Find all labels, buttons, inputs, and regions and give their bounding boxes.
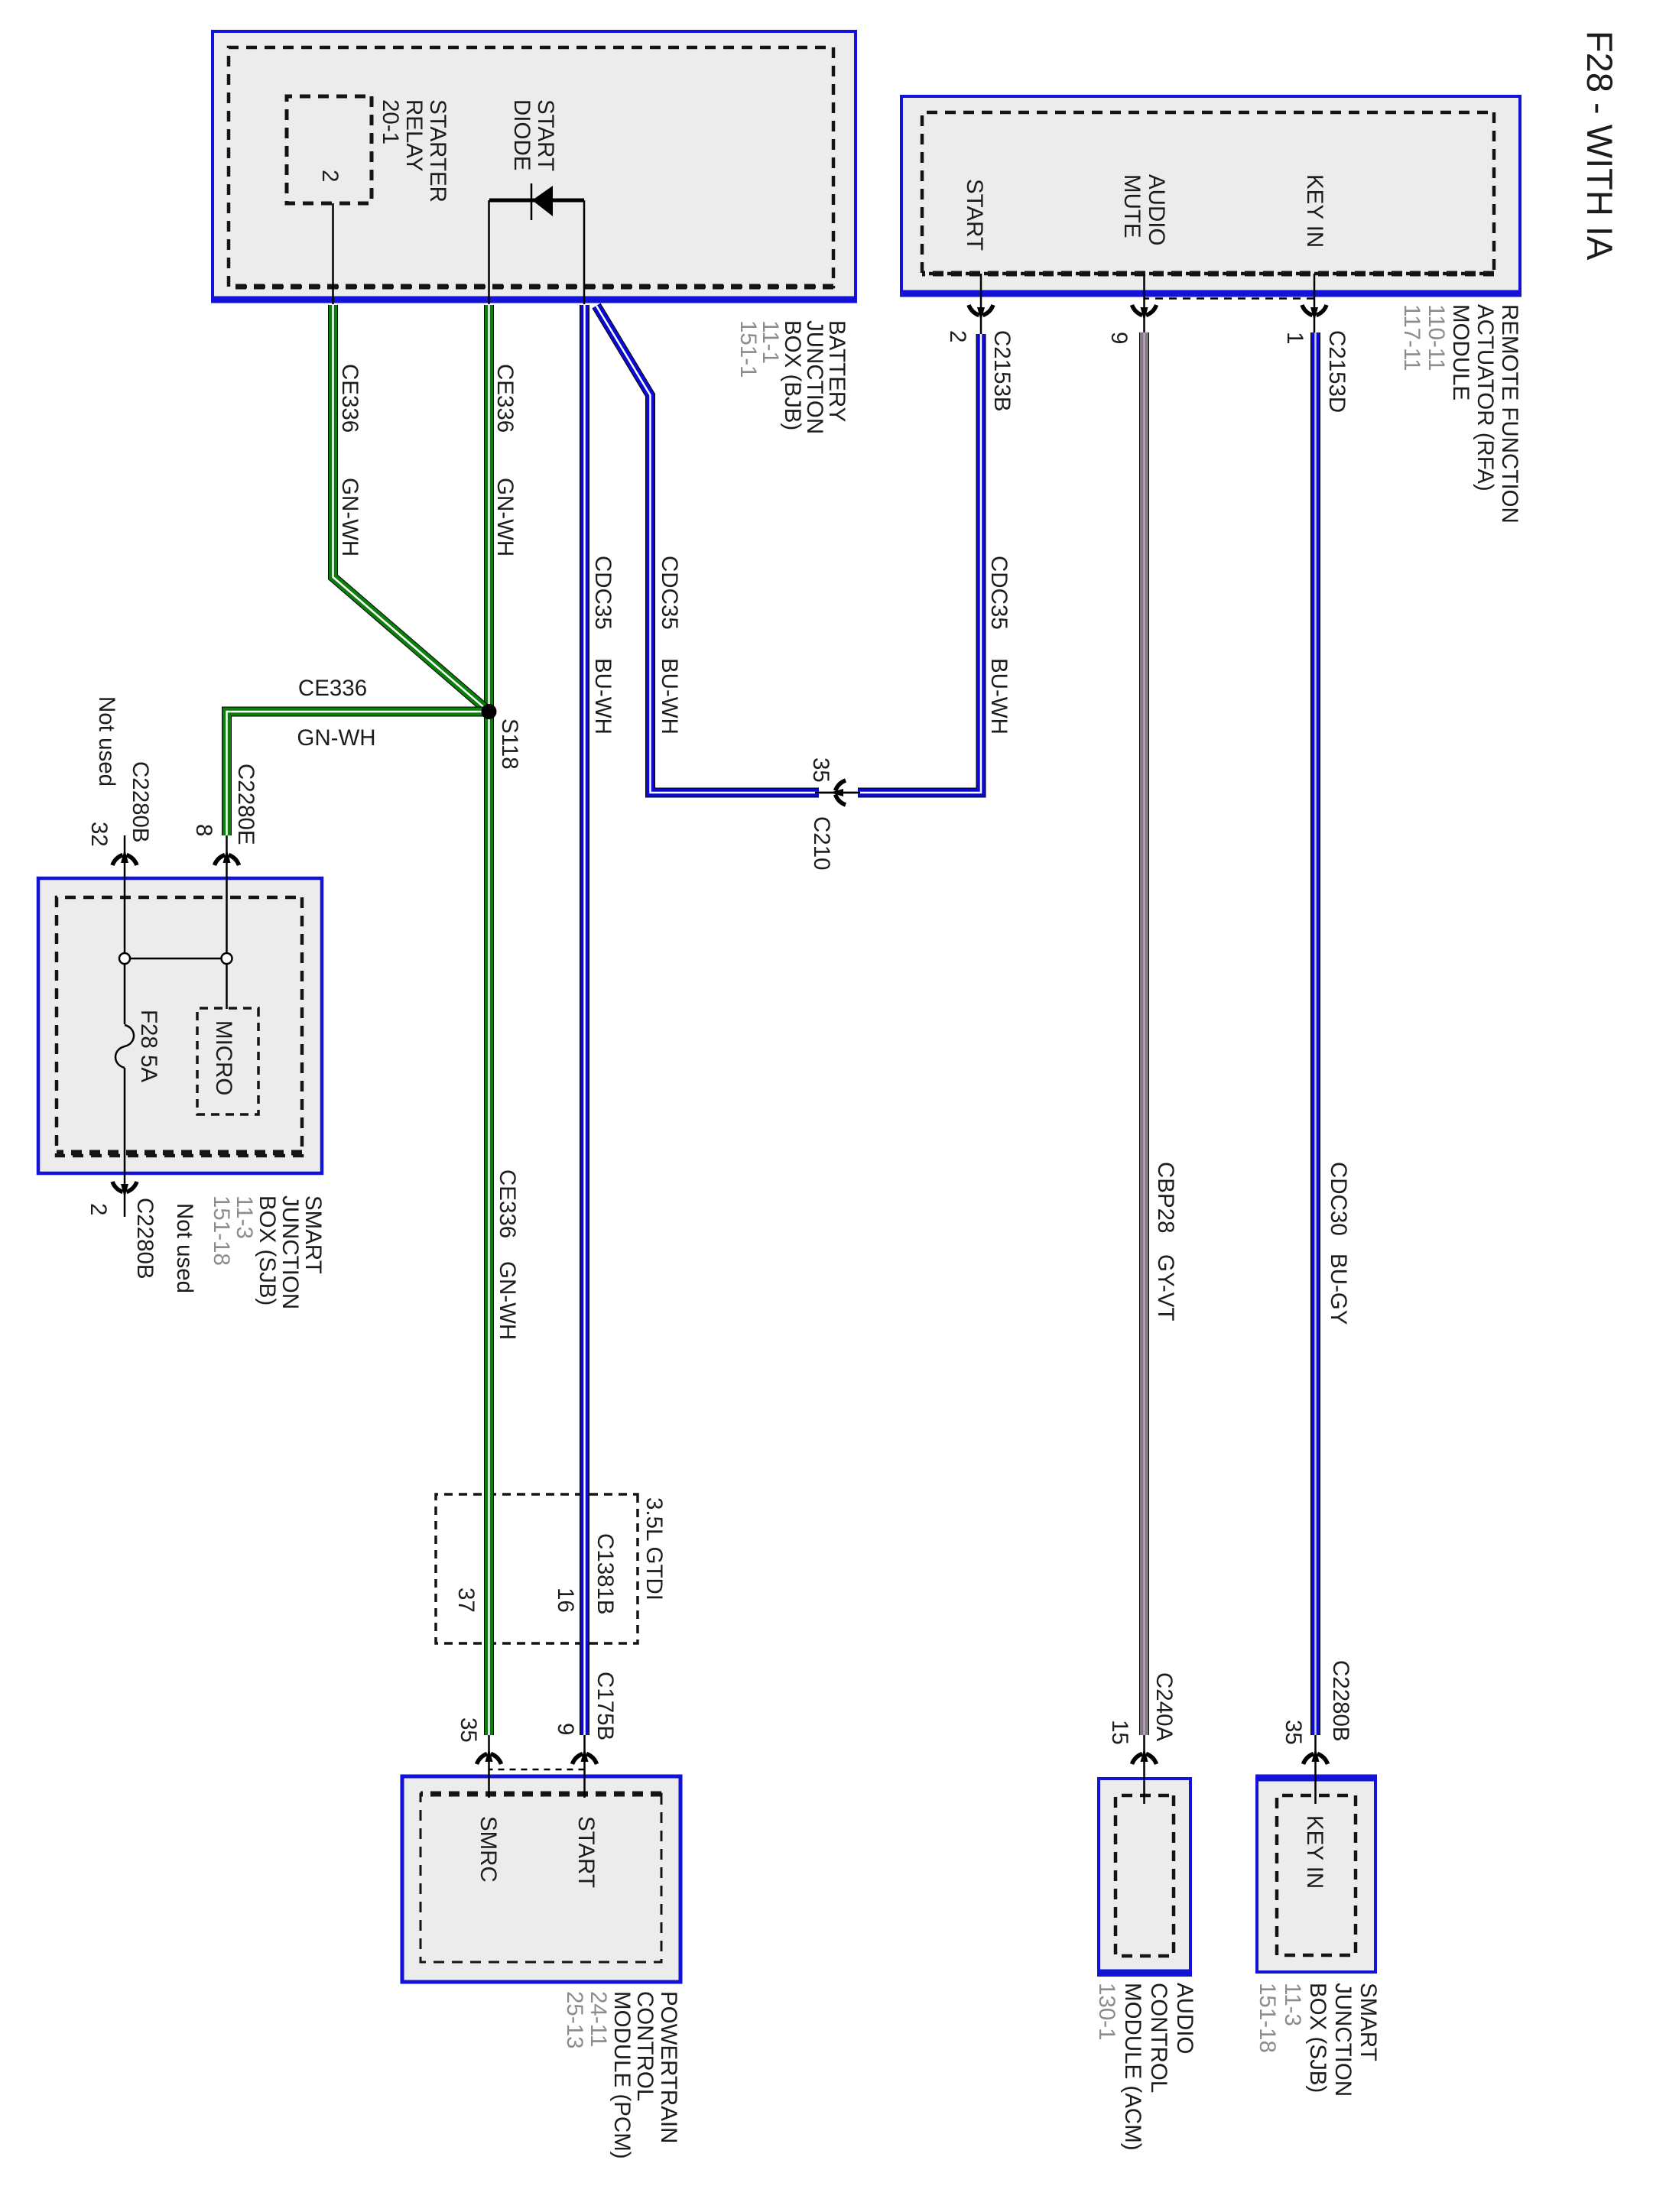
svg-text:C1381B: C1381B [593, 1533, 618, 1615]
svg-text:JUNCTION: JUNCTION [1330, 1983, 1356, 2097]
svg-text:24-11: 24-11 [586, 1991, 611, 2047]
svg-text:2: 2 [317, 170, 343, 182]
svg-text:S118: S118 [497, 718, 522, 770]
svg-text:15: 15 [1107, 1720, 1132, 1745]
svg-text:20-1: 20-1 [378, 99, 403, 144]
svg-text:CDC35: CDC35 [986, 556, 1012, 630]
svg-text:MICRO: MICRO [211, 1020, 236, 1095]
svg-text:REMOTE FUNCTION: REMOTE FUNCTION [1497, 304, 1522, 524]
svg-text:JUNCTION: JUNCTION [278, 1195, 303, 1309]
svg-text:KEY IN: KEY IN [1302, 1815, 1327, 1889]
svg-text:C240A: C240A [1151, 1672, 1177, 1742]
svg-text:117-11: 117-11 [1399, 304, 1424, 371]
svg-text:CE336: CE336 [298, 676, 367, 701]
svg-text:130-1: 130-1 [1094, 1983, 1119, 2040]
svg-text:C210: C210 [809, 816, 834, 871]
svg-text:37: 37 [453, 1588, 479, 1613]
svg-text:BATTERY: BATTERY [824, 320, 849, 423]
svg-text:9: 9 [1106, 332, 1132, 344]
svg-text:32: 32 [86, 822, 112, 847]
svg-text:CE336: CE336 [492, 364, 518, 433]
svg-text:START: START [962, 179, 987, 251]
svg-text:1: 1 [1282, 332, 1307, 344]
svg-text:JUNCTION: JUNCTION [802, 320, 827, 434]
svg-text:CE336: CE336 [495, 1169, 520, 1238]
svg-text:3.5L GTDI: 3.5L GTDI [641, 1497, 667, 1601]
svg-text:BOX (SJB): BOX (SJB) [1305, 1983, 1330, 2093]
svg-text:GN-WH: GN-WH [297, 725, 375, 751]
svg-text:SMART: SMART [300, 1195, 326, 1274]
svg-text:CONTROL: CONTROL [632, 1991, 658, 2101]
svg-text:151-18: 151-18 [1255, 1983, 1280, 2053]
svg-text:BU-WH: BU-WH [657, 658, 682, 735]
svg-text:GN-WH: GN-WH [337, 478, 362, 556]
svg-text:CBP28: CBP28 [1153, 1162, 1178, 1233]
svg-text:11-1: 11-1 [758, 320, 783, 364]
svg-text:MODULE (ACM): MODULE (ACM) [1120, 1983, 1145, 2151]
svg-text:GN-WH: GN-WH [492, 478, 518, 556]
svg-text:AUDIO: AUDIO [1172, 1983, 1197, 2054]
svg-text:CE336: CE336 [337, 364, 362, 433]
svg-text:F28 5A: F28 5A [136, 1010, 161, 1082]
svg-text:SMART: SMART [1356, 1983, 1381, 2061]
svg-text:ACTUATOR (RFA): ACTUATOR (RFA) [1473, 304, 1498, 491]
svg-text:GN-WH: GN-WH [495, 1261, 520, 1340]
svg-text:DIODE: DIODE [509, 99, 534, 170]
svg-text:MUTE: MUTE [1119, 174, 1145, 238]
svg-text:START: START [573, 1816, 599, 1888]
svg-text:C2280E: C2280E [233, 764, 258, 845]
svg-text:CDC35: CDC35 [590, 556, 615, 630]
svg-text:BU-WH: BU-WH [986, 658, 1012, 735]
svg-text:35: 35 [808, 757, 833, 783]
svg-text:STARTER: STARTER [425, 99, 450, 203]
svg-text:KEY IN: KEY IN [1302, 174, 1327, 248]
svg-text:9: 9 [553, 1723, 578, 1735]
svg-text:BU-GY: BU-GY [1326, 1254, 1351, 1325]
svg-text:CONTROL: CONTROL [1146, 1983, 1171, 2093]
svg-text:C175B: C175B [593, 1672, 618, 1740]
svg-text:Not used: Not used [172, 1203, 197, 1293]
svg-text:BU-WH: BU-WH [590, 658, 615, 735]
svg-text:8: 8 [191, 824, 216, 836]
svg-text:BOX (SJB): BOX (SJB) [255, 1195, 280, 1305]
svg-text:C2280B: C2280B [1328, 1660, 1353, 1742]
svg-text:POWERTRAIN: POWERTRAIN [656, 1991, 681, 2143]
svg-text:C2280B: C2280B [128, 761, 153, 843]
svg-text:11-3: 11-3 [1280, 1983, 1305, 2026]
svg-text:BOX (BJB): BOX (BJB) [780, 320, 805, 430]
svg-text:25-13: 25-13 [562, 1991, 587, 2048]
svg-text:2: 2 [945, 330, 970, 342]
svg-text:Not used: Not used [94, 696, 119, 787]
svg-text:35: 35 [1281, 1720, 1306, 1745]
svg-text:16: 16 [553, 1588, 578, 1613]
svg-text:C2280B: C2280B [132, 1198, 158, 1280]
svg-text:START: START [533, 99, 558, 171]
svg-text:151-1: 151-1 [736, 320, 761, 378]
svg-text:C2153D: C2153D [1324, 330, 1349, 413]
svg-text:C2153B: C2153B [989, 330, 1015, 412]
svg-text:CDC30: CDC30 [1326, 1162, 1351, 1236]
svg-text:2: 2 [86, 1203, 111, 1215]
svg-text:GY-VT: GY-VT [1153, 1254, 1178, 1321]
svg-text:RELAY: RELAY [401, 99, 427, 172]
svg-text:CDC35: CDC35 [657, 556, 682, 630]
svg-text:151-18: 151-18 [209, 1195, 234, 1266]
svg-text:35: 35 [456, 1717, 481, 1743]
svg-text:AUDIO: AUDIO [1144, 174, 1169, 245]
svg-text:F28 - WITH IA: F28 - WITH IA [1580, 31, 1620, 261]
svg-text:MODULE (PCM): MODULE (PCM) [609, 1991, 635, 2159]
svg-text:11-3: 11-3 [232, 1195, 257, 1239]
svg-text:SMRC: SMRC [476, 1816, 501, 1883]
svg-text:110-11: 110-11 [1424, 304, 1449, 371]
svg-text:MODULE: MODULE [1448, 304, 1473, 401]
